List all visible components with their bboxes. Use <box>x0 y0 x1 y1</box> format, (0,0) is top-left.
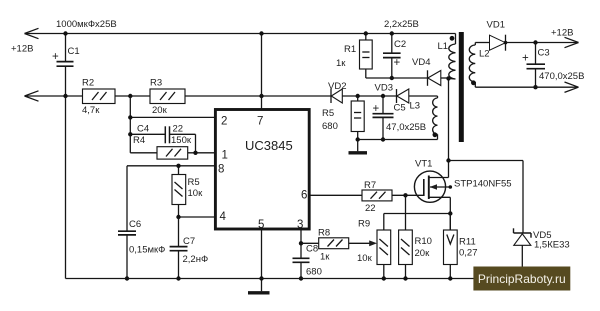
svg-text:+: + <box>394 57 401 69</box>
svg-text:C4: C4 <box>137 124 149 135</box>
resistor R7 <box>362 190 392 201</box>
resistor R4 <box>130 147 215 159</box>
svg-text:R3: R3 <box>150 78 162 89</box>
wire bottom ground rail <box>66 278 474 280</box>
wire lower input rail <box>25 94 83 98</box>
ground aux <box>349 140 368 153</box>
svg-text:L1: L1 <box>438 41 449 52</box>
inductor L2 secondary <box>469 43 476 88</box>
inductor L1 primary <box>448 36 455 79</box>
svg-text:C8: C8 <box>306 244 318 255</box>
svg-text:1к: 1к <box>320 252 330 263</box>
svg-text:VD1: VD1 <box>487 20 505 31</box>
svg-text:20к: 20к <box>415 248 431 259</box>
wire R2-R3 <box>115 94 150 98</box>
node input arrow top <box>25 28 39 38</box>
svg-text:+: + <box>52 51 59 63</box>
svg-text:2,2х25В: 2,2х25В <box>384 19 419 30</box>
wire +12V output <box>506 40 579 44</box>
wire R7 to gate <box>392 193 424 197</box>
svg-text:1к: 1к <box>336 58 346 69</box>
wire Vcc column to pin7 <box>259 31 263 109</box>
svg-text:22: 22 <box>173 124 184 135</box>
svg-text:1,5КЕ33: 1,5КЕ33 <box>534 240 570 251</box>
svg-text:R11: R11 <box>459 237 476 248</box>
wire aux ground line <box>358 139 438 141</box>
svg-text:L3: L3 <box>410 101 421 112</box>
svg-text:VT1: VT1 <box>415 159 432 170</box>
resistor R1 snubber <box>360 31 373 78</box>
wire top +12V rail <box>25 34 456 45</box>
diode VD4 clamp <box>428 70 451 86</box>
capacitor C8 <box>293 258 310 280</box>
svg-text:7: 7 <box>257 116 263 128</box>
node input arrow lower <box>25 91 39 101</box>
diode VD2 <box>331 89 342 103</box>
svg-text:3: 3 <box>297 219 303 231</box>
watermark box <box>473 267 570 291</box>
svg-text:+: + <box>522 53 529 65</box>
svg-text:6: 6 <box>301 190 307 202</box>
resistor R2 <box>83 89 116 104</box>
svg-text:680: 680 <box>306 267 322 278</box>
svg-text:4,7к: 4,7к <box>82 105 100 116</box>
svg-text:47,0х25В: 47,0х25В <box>386 122 426 133</box>
svg-text:VD4: VD4 <box>412 57 430 68</box>
ground pin5 <box>248 291 270 294</box>
inductor L3 aux winding <box>433 98 438 140</box>
wire R3 to VD2 <box>185 94 331 98</box>
svg-text:R5: R5 <box>322 108 334 119</box>
diode VD3 <box>397 89 409 103</box>
svg-text:C1: C1 <box>68 46 80 57</box>
resistor R5 timing <box>172 164 186 217</box>
wire VD2 to VD3 <box>342 94 396 98</box>
svg-text:0,15мкФ: 0,15мкФ <box>129 245 165 256</box>
wire pin6 output <box>309 194 362 196</box>
diode VD5 TVS <box>514 228 532 266</box>
svg-text:5: 5 <box>258 219 264 231</box>
svg-text:C5: C5 <box>394 103 406 114</box>
capacitor C1 <box>57 31 74 278</box>
wire source sense node <box>384 211 453 215</box>
wire drain column <box>446 78 450 177</box>
svg-text:L2: L2 <box>479 49 490 60</box>
wire pin4 <box>176 215 215 219</box>
svg-text:2,2нФ: 2,2нФ <box>183 254 209 265</box>
svg-text:+12В: +12В <box>551 28 573 39</box>
wire snubber bottom <box>366 77 428 79</box>
svg-text:R10: R10 <box>415 236 432 247</box>
wire output return <box>475 86 578 88</box>
resistor R5 bleeder 680 <box>351 96 364 142</box>
capacitor C3 <box>527 43 546 90</box>
svg-text:10к: 10к <box>188 188 204 199</box>
svg-text:20к: 20к <box>152 105 168 116</box>
svg-text:1000мкФх25В: 1000мкФх25В <box>56 19 117 30</box>
wire startup node down <box>129 96 131 153</box>
diode VD1 <box>490 35 508 51</box>
op-amp U1 UC3845 body <box>215 110 309 230</box>
svg-text:R8: R8 <box>318 228 330 239</box>
svg-text:0,27: 0,27 <box>459 248 478 259</box>
svg-text:+12В: +12В <box>11 44 33 55</box>
svg-text:STP140NF55: STP140NF55 <box>454 179 512 190</box>
resistor R11 sense <box>444 214 458 281</box>
svg-text:PrincipRaboty.ru: PrincipRaboty.ru <box>478 272 566 286</box>
resistor R3 <box>150 89 185 104</box>
node output arrow top <box>565 37 579 47</box>
wire VD3 to L3 <box>409 96 438 98</box>
svg-text:4: 4 <box>220 211 227 223</box>
svg-text:150к: 150к <box>171 135 192 146</box>
svg-text:UC3845: UC3845 <box>245 138 293 153</box>
svg-text:R7: R7 <box>364 180 376 191</box>
svg-text:C3: C3 <box>538 48 550 59</box>
svg-text:C2: C2 <box>394 39 406 50</box>
resistor R10 <box>399 195 413 280</box>
wire L2 top to VD1 <box>475 42 489 44</box>
svg-text:R1: R1 <box>344 44 356 55</box>
svg-text:C7: C7 <box>183 236 195 247</box>
transformer core <box>459 32 464 142</box>
svg-text:R9: R9 <box>358 219 370 230</box>
svg-text:2: 2 <box>221 116 227 128</box>
svg-text:+: + <box>373 103 380 115</box>
capacitor C7 <box>170 217 188 281</box>
svg-text:R5: R5 <box>188 177 200 188</box>
node output arrow bottom <box>565 82 579 92</box>
svg-text:470,0х25В: 470,0х25В <box>539 71 584 82</box>
wire pin3 column <box>299 229 303 258</box>
wire pin5 ground <box>259 229 263 291</box>
svg-text:VD2: VD2 <box>328 81 346 92</box>
wire pin2 feedback <box>128 115 215 119</box>
capacitor C5 <box>373 96 394 142</box>
resistor R8 <box>301 238 349 249</box>
svg-text:8: 8 <box>218 164 224 176</box>
wire R8 wiper arrow to R9 <box>349 240 377 246</box>
svg-text:VD3: VD3 <box>375 83 393 94</box>
resistor R9 variable <box>377 214 391 281</box>
svg-text:C6: C6 <box>129 219 141 230</box>
svg-text:680: 680 <box>322 121 338 132</box>
wire drain to VD5 <box>449 161 524 234</box>
capacitor C6 <box>118 231 136 280</box>
transistor Q1 VT1 mosfet <box>414 171 452 230</box>
wire pin8 Vref <box>127 166 215 231</box>
svg-text:22: 22 <box>365 203 376 214</box>
svg-text:10к: 10к <box>357 253 373 264</box>
capacitor C2 snubber <box>383 31 401 80</box>
capacitor C4 <box>128 126 195 153</box>
svg-text:R4: R4 <box>133 135 145 146</box>
svg-text:1: 1 <box>222 150 228 162</box>
svg-text:R2: R2 <box>82 78 94 89</box>
